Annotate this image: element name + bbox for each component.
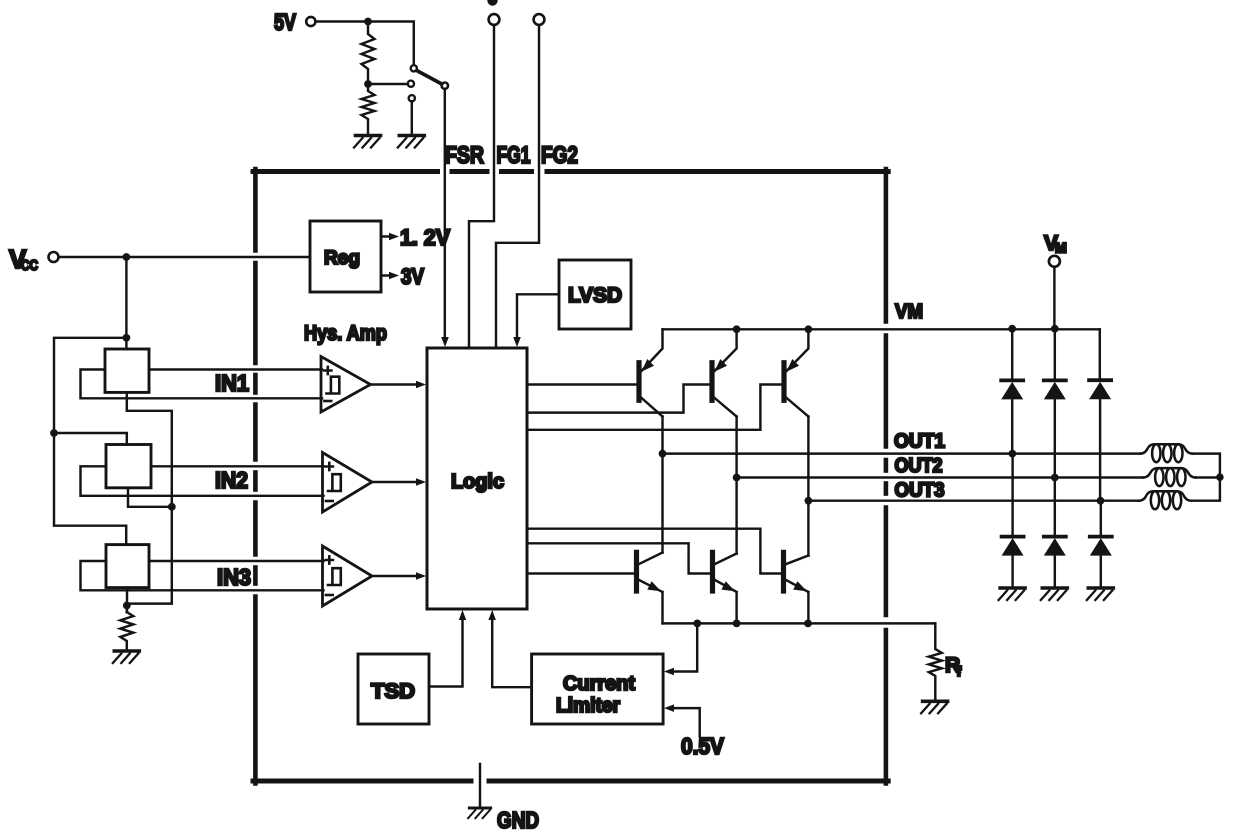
svg-text:M: M	[1055, 240, 1067, 256]
node divider top	[364, 18, 372, 26]
svg-text:LVSD: LVSD	[568, 284, 622, 307]
wire OUT1	[663, 452, 1141, 454]
ground (Rf)	[923, 699, 948, 703]
wire A2 output to Logic	[372, 481, 419, 483]
switch S1 lever	[417, 71, 442, 85]
regulator Reg	[310, 221, 381, 292]
wire H2 bottom to chain	[128, 488, 172, 507]
svg-text:f: f	[957, 663, 962, 679]
IC boundary top border	[253, 169, 438, 174]
wire emitter drops	[661, 592, 663, 623]
diode D1 (top)	[1011, 329, 1013, 381]
wire left rail to hall2	[54, 433, 127, 445]
block TSD	[358, 654, 429, 724]
svg-text:OUT3: OUT3	[895, 479, 945, 501]
svg-text:FG2: FG2	[541, 142, 578, 169]
svg-text:OUT2: OUT2	[895, 455, 943, 477]
node OUT3 left	[805, 497, 813, 505]
wire emitter rail	[663, 622, 936, 624]
svg-text:0.5V: 0.5V	[681, 733, 725, 759]
wire H1 plus to amp1	[149, 368, 322, 370]
IC boundary left border	[253, 169, 258, 251]
terminal Vcc	[49, 252, 59, 262]
wire H2 plus to amp2	[151, 465, 324, 467]
terminal VM	[1049, 256, 1060, 267]
wire 5V to switch	[316, 22, 414, 65]
svg-text:Limiter: Limiter	[556, 695, 620, 717]
hall sensor H3	[106, 545, 149, 588]
wire GND stem	[479, 764, 481, 806]
switch S1 contact mid	[408, 81, 414, 87]
svg-text:IN2: IN2	[215, 467, 248, 493]
node D1/OUT1	[1009, 450, 1017, 458]
transistor Q3 (upper)	[784, 329, 808, 416]
diode D3 (top)	[1099, 329, 1101, 380]
svg-text:Reg: Reg	[324, 248, 360, 269]
switch S1 contact top	[411, 65, 417, 71]
terminal FG2	[534, 14, 545, 25]
wire collector column Q3/Q6	[807, 417, 809, 556]
transistor Q1 (upper)	[639, 329, 663, 416]
wire 3V output arrow	[381, 274, 390, 276]
wire base Q5	[527, 543, 710, 573]
wire Vcc left rail	[54, 338, 126, 545]
diode D2 (top)	[1054, 329, 1056, 381]
svg-text:VM: VM	[895, 301, 923, 323]
svg-text:IN1: IN1	[215, 370, 249, 396]
wire base Q2	[527, 385, 710, 413]
wire collector column Q2/Q5	[735, 417, 737, 554]
node divider mid	[364, 80, 372, 88]
wire 1.2V output arrow	[381, 235, 390, 237]
wire H1 minus wrap to amp1	[81, 370, 323, 399]
svg-text:3V: 3V	[401, 264, 424, 289]
terminal 5V	[306, 17, 315, 26]
block LVSD	[559, 260, 631, 329]
op-amp hysteresis A1	[321, 357, 371, 413]
svg-text:TSD: TSD	[371, 680, 415, 703]
wire FSR	[444, 89, 446, 339]
switch S1 pole	[442, 83, 448, 89]
logic block U1	[427, 348, 527, 609]
wire OUT3	[808, 499, 1139, 501]
ground (D6)	[1088, 586, 1113, 590]
wire Current Limiter to Logic	[492, 618, 531, 687]
ground (hall bias)	[114, 649, 139, 653]
IC boundary right border	[884, 169, 889, 322]
IC boundary bottom border	[253, 779, 471, 784]
svg-text:IN3: IN3	[217, 564, 251, 590]
wire hall chain H1 bottom	[127, 392, 172, 612]
node motor neutral	[1216, 473, 1224, 481]
node D2/OUT2	[1051, 474, 1059, 482]
wire A1 output to Logic	[371, 383, 420, 385]
wire divider tap to switch contact	[368, 83, 408, 85]
wire VM terminal to rail	[1053, 267, 1055, 329]
svg-text:OUT1: OUT1	[894, 431, 945, 453]
wire switch bottom contact to ground	[411, 102, 413, 134]
wire H3 minus wrap to amp3	[81, 561, 324, 590]
wire Vcc drop to hall chain	[125, 257, 127, 349]
node hall top	[123, 334, 131, 342]
resistor R1 (divider upper)	[362, 22, 375, 84]
inductor L1	[1140, 444, 1192, 462]
ground (D5)	[1042, 586, 1067, 590]
wire H3 bottom	[126, 588, 128, 612]
ground (divider)	[356, 134, 381, 138]
wire VM rail (upper emitters)	[663, 328, 1100, 330]
wire base Q6	[527, 529, 781, 574]
wire Vcc to Reg	[59, 256, 310, 258]
wire OUT2	[737, 476, 1144, 478]
wire 0.5V input	[671, 708, 700, 736]
wire A3 output to Logic	[372, 575, 419, 577]
resistor R2 (divider lower)	[362, 84, 375, 134]
node OUT2 left	[733, 474, 741, 482]
node chain bottom	[123, 602, 131, 610]
svg-text:1. 2V: 1. 2V	[400, 225, 450, 250]
switch S1 contact bottom	[409, 95, 415, 101]
terminal FG1	[489, 14, 500, 25]
wire emitter rail to Current Limiter	[671, 623, 697, 671]
transistor Q4 (lower)	[637, 552, 663, 592]
op-amp hysteresis A3	[323, 546, 373, 606]
transistor Q2 (upper)	[712, 329, 737, 416]
hall sensor H2	[106, 445, 151, 488]
transistor Q5 (lower)	[713, 552, 737, 592]
wire base Q3	[527, 385, 782, 430]
block Current Limiter	[532, 654, 664, 724]
node chain mid	[168, 503, 176, 511]
wire TSD to Logic	[429, 618, 463, 687]
node Vcc	[123, 253, 131, 261]
diode D4 (bottom)	[1011, 454, 1013, 537]
diode D5 (bottom)	[1054, 478, 1056, 537]
svg-text:Logic: Logic	[451, 470, 504, 493]
resistor R3 (hall bias)	[120, 612, 133, 649]
wire LVSD to Logic	[517, 294, 559, 338]
wire base Q4	[527, 572, 634, 574]
svg-text:Hys. Amp: Hys. Amp	[304, 322, 387, 345]
op-amp hysteresis A2	[323, 453, 373, 513]
resistor Rf	[929, 623, 942, 698]
hall sensor H1	[105, 349, 149, 392]
svg-text:Current: Current	[563, 673, 635, 695]
wire H2 minus wrap to amp2	[81, 466, 324, 496]
svg-text:5V: 5V	[274, 9, 297, 35]
wire H3 plus to amp3	[149, 560, 324, 562]
node left rail	[50, 429, 58, 437]
node D3/OUT3	[1097, 497, 1105, 505]
inductor L3	[1139, 491, 1191, 509]
transistor Q6 (lower)	[784, 552, 809, 592]
ground (D4)	[1000, 586, 1025, 590]
node OUT1 left	[659, 450, 667, 458]
wire coil commons	[1191, 454, 1220, 501]
ground (GND pin)	[469, 806, 490, 809]
ground (switch)	[399, 134, 424, 138]
artifact dot top edge	[487, 0, 497, 6]
diode D6 (bottom)	[1100, 501, 1102, 537]
wire base Q1	[527, 383, 637, 385]
wire FG1	[469, 25, 494, 346]
inductor L2	[1143, 468, 1195, 486]
svg-text:GND: GND	[497, 807, 539, 831]
wire collector column Q1/Q4	[661, 417, 663, 553]
svg-text:CC: CC	[21, 258, 38, 274]
wire FG2	[496, 25, 539, 346]
svg-text:FSR: FSR	[445, 142, 484, 169]
svg-text:FG1: FG1	[497, 142, 531, 169]
